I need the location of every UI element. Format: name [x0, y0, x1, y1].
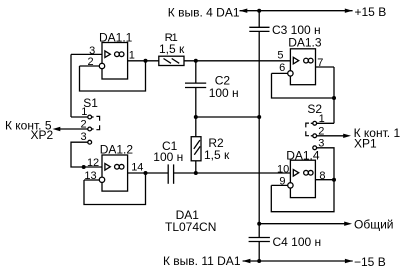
- op-amp DA1.3 inversion circle pin6: [288, 71, 293, 76]
- capacitor C4: [249, 238, 270, 242]
- svg-text:C4 100 н: C4 100 н: [273, 235, 322, 249]
- node R1 right / C2 branch junction: [194, 59, 198, 63]
- node DA1.3 feedback junction: [332, 96, 336, 100]
- wire DA1.4 pin9 input: [271, 184, 287, 186]
- op-amp DA1.2 triangle symbol: [105, 164, 110, 171]
- svg-text:DA1.3: DA1.3: [288, 36, 322, 50]
- wire DA1.3 output to S2 contact 1: [333, 98, 335, 123]
- svg-text:1,5 к: 1,5 к: [204, 148, 230, 162]
- svg-text:7: 7: [317, 57, 323, 69]
- wire S2 contact 3 to DA1.4 output: [317, 148, 334, 180]
- wire common vertical rail: [258, 31, 260, 237]
- capacitor C3: [249, 27, 269, 31]
- svg-text:10: 10: [277, 163, 289, 175]
- svg-text:5: 5: [277, 50, 283, 62]
- resistor R2: [191, 137, 201, 161]
- svg-text:1: 1: [81, 106, 87, 118]
- wire DA1.1 output pin1 to R1: [128, 60, 159, 62]
- op-amp DA1.3: [290, 49, 315, 85]
- svg-text:2: 2: [87, 56, 93, 68]
- arrowhead to +15 В: [345, 9, 353, 13]
- svg-text:1: 1: [319, 113, 325, 125]
- switch S2 contact 1 circle: [313, 121, 317, 125]
- op-amp DA1.1: [102, 43, 128, 80]
- op-amp DA1.1 inversion circle pin2: [99, 63, 104, 68]
- capacitor C2: [185, 83, 206, 87]
- switch S1 contact 1 stub: [92, 116, 94, 118]
- svg-text:DA1.1: DA1.1: [99, 31, 133, 45]
- op-amp DA1.2: [102, 155, 128, 191]
- svg-text:3: 3: [80, 131, 86, 143]
- op-amp DA1.3 triangle symbol: [293, 57, 298, 64]
- wire DA1.1 pin2 input: [80, 65, 100, 67]
- switch S2 contact 3 circle: [313, 146, 317, 150]
- switch S2 contact 2 arrow to ХР1: [317, 135, 344, 137]
- svg-text:ХР1: ХР1: [354, 137, 377, 151]
- wire C4 to -15V rail: [258, 242, 260, 262]
- wire DA1.2 output pin14 to C1: [128, 172, 169, 174]
- wire C3 stub: [258, 11, 260, 28]
- svg-text:ХР2: ХР2: [31, 128, 54, 142]
- wire R1 to DA1.3 pin5: [184, 60, 290, 62]
- wire S1 contact 3 to DA1.2 pin12: [71, 142, 102, 167]
- wire DA1.4 feedback loop: [271, 180, 334, 212]
- op-amp DA1.1 triangle symbol: [105, 51, 110, 58]
- wire DA1.4 output pin8: [315, 179, 334, 181]
- arrowhead to К выв. 4 DA1: [240, 9, 248, 13]
- svg-text:13: 13: [84, 170, 96, 182]
- capacitor C1: [168, 164, 173, 183]
- node Общий junction: [257, 222, 261, 226]
- switch S2 contact 1 stub: [311, 122, 313, 124]
- svg-text:К выв. 11 DA1: К выв. 11 DA1: [163, 254, 241, 268]
- wire DA1.1 pin3 input: [71, 53, 102, 55]
- switch S1 movable contact dashed bracket: [96, 116, 99, 129]
- node bottom rail / C4 junction: [257, 259, 261, 263]
- wire DA1.3 feedback loop: [272, 67, 335, 98]
- switch S2 contact 2 stub: [311, 135, 313, 137]
- svg-text:100 н: 100 н: [209, 86, 239, 100]
- node R2 bottom junction: [194, 171, 198, 175]
- wire left vertical to S1 contact 1: [70, 54, 72, 117]
- node DA1.4 feedback junction: [332, 178, 336, 182]
- svg-text:8: 8: [319, 170, 325, 182]
- svg-text:−15 В: −15 В: [354, 255, 386, 269]
- svg-text:2: 2: [80, 118, 86, 130]
- wire Общий: [259, 223, 346, 225]
- svg-text:Общий: Общий: [354, 218, 394, 232]
- op-amp DA1.2 infinity symbol: [115, 164, 120, 169]
- wire DA1.1 feedback loop: [80, 61, 146, 91]
- resistor R1 power marks: [164, 59, 172, 64]
- switch S1 contact 2 stub: [92, 128, 94, 130]
- resistor R2 power marks: [194, 140, 200, 149]
- wire common node to rail: [196, 116, 259, 118]
- svg-text:2: 2: [318, 126, 324, 138]
- arrowhead to -15 В: [345, 259, 353, 263]
- resistor R1: [159, 56, 184, 65]
- wire R2 top lead: [195, 117, 197, 137]
- switch S1 contact 1 wire: [71, 116, 88, 118]
- svg-text:14: 14: [131, 162, 143, 174]
- arrowhead to Общий: [344, 222, 352, 226]
- wire C2 to common node: [195, 88, 197, 118]
- switch S1 contact 1 circle: [88, 115, 92, 119]
- svg-text:1,5 к: 1,5 к: [159, 42, 185, 56]
- switch S2 contact 1 wire: [317, 122, 334, 124]
- svg-text:TL074CN: TL074CN: [165, 220, 216, 234]
- wire R2 bottom lead: [195, 161, 197, 173]
- svg-text:+15 В: +15 В: [355, 5, 387, 19]
- wire -15V bottom rail: [243, 260, 353, 262]
- node C2/R2 junction: [194, 115, 198, 119]
- wire C1 to DA1.4 pin10: [174, 172, 291, 174]
- node on DA1.2 pin12 wire: [82, 165, 86, 169]
- switch S1 contact 2 circle: [88, 127, 92, 131]
- node DA1.1 output junction: [144, 59, 148, 63]
- op-amp DA1.3 infinity symbol: [304, 58, 309, 63]
- svg-text:12: 12: [87, 157, 99, 169]
- wire DA1.3 output pin7: [316, 66, 335, 68]
- wire DA1.3 pin6 input: [272, 72, 288, 74]
- wire DA1.2 feedback loop: [84, 173, 146, 205]
- svg-text:9: 9: [279, 175, 285, 187]
- op-amp DA1.4 infinity symbol: [304, 170, 309, 175]
- svg-text:DA1.4: DA1.4: [286, 149, 320, 163]
- arrowhead to К выв. 11 DA1: [243, 259, 251, 263]
- wire C2 branch: [195, 61, 197, 83]
- switch S2 movable contact dashed bracket: [306, 123, 309, 136]
- op-amp DA1.4: [290, 160, 315, 197]
- svg-text:К выв. 4 DA1: К выв. 4 DA1: [168, 5, 240, 19]
- wire DA1.2 pin13 input: [84, 179, 99, 181]
- svg-text:DA1.2: DA1.2: [100, 143, 134, 157]
- svg-text:6: 6: [279, 62, 285, 74]
- op-amp DA1.4 triangle symbol: [293, 170, 298, 177]
- svg-text:1: 1: [129, 50, 135, 62]
- node top rail / C3 junction: [257, 9, 261, 13]
- node rail junction at y117: [257, 115, 261, 119]
- switch S1 contact 3 circle: [88, 140, 92, 144]
- op-amp DA1.2 inversion circle pin13: [99, 177, 104, 182]
- wire +15V top rail: [240, 10, 353, 12]
- op-amp DA1.4 inversion circle pin9: [288, 183, 293, 188]
- op-amp DA1.1 infinity symbol: [115, 52, 120, 57]
- node DA1.2 output junction: [144, 171, 148, 175]
- switch S1 contact 2 arrow to ХР2: [60, 128, 88, 130]
- switch S2 contact 2 circle: [313, 134, 317, 138]
- svg-text:100 н: 100 н: [153, 150, 183, 164]
